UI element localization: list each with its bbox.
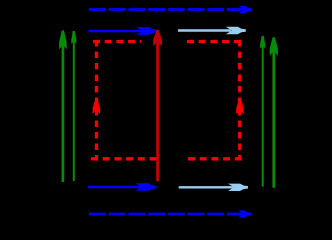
bottom-left solid blue arrow — [88, 183, 157, 191]
top dashed blue arrow — [89, 6, 252, 13]
right inner thin green arrow — [260, 36, 265, 187]
left outer thick green arrow — [59, 30, 67, 182]
small red arrowhead on right loop — [236, 99, 244, 114]
bottom-right light blue arrow — [179, 184, 248, 191]
left dashed red loop bottom edge — [91, 157, 158, 160]
top-left solid blue arrow — [89, 27, 158, 35]
right outer thick green arrow — [270, 37, 278, 188]
right dashed red loop bottom edge — [188, 157, 242, 160]
central red arrow — [153, 30, 162, 181]
left inner thin green arrow — [71, 31, 76, 181]
left dashed red loop top edge — [93, 40, 141, 43]
right dashed red loop right edge — [238, 40, 241, 161]
top-right light blue arrow — [178, 27, 246, 34]
right dashed red loop top edge — [187, 40, 241, 43]
left dashed red loop left edge — [95, 40, 98, 161]
bottom dashed blue arrow — [89, 210, 252, 217]
small red arrowhead on left loop — [93, 99, 101, 114]
